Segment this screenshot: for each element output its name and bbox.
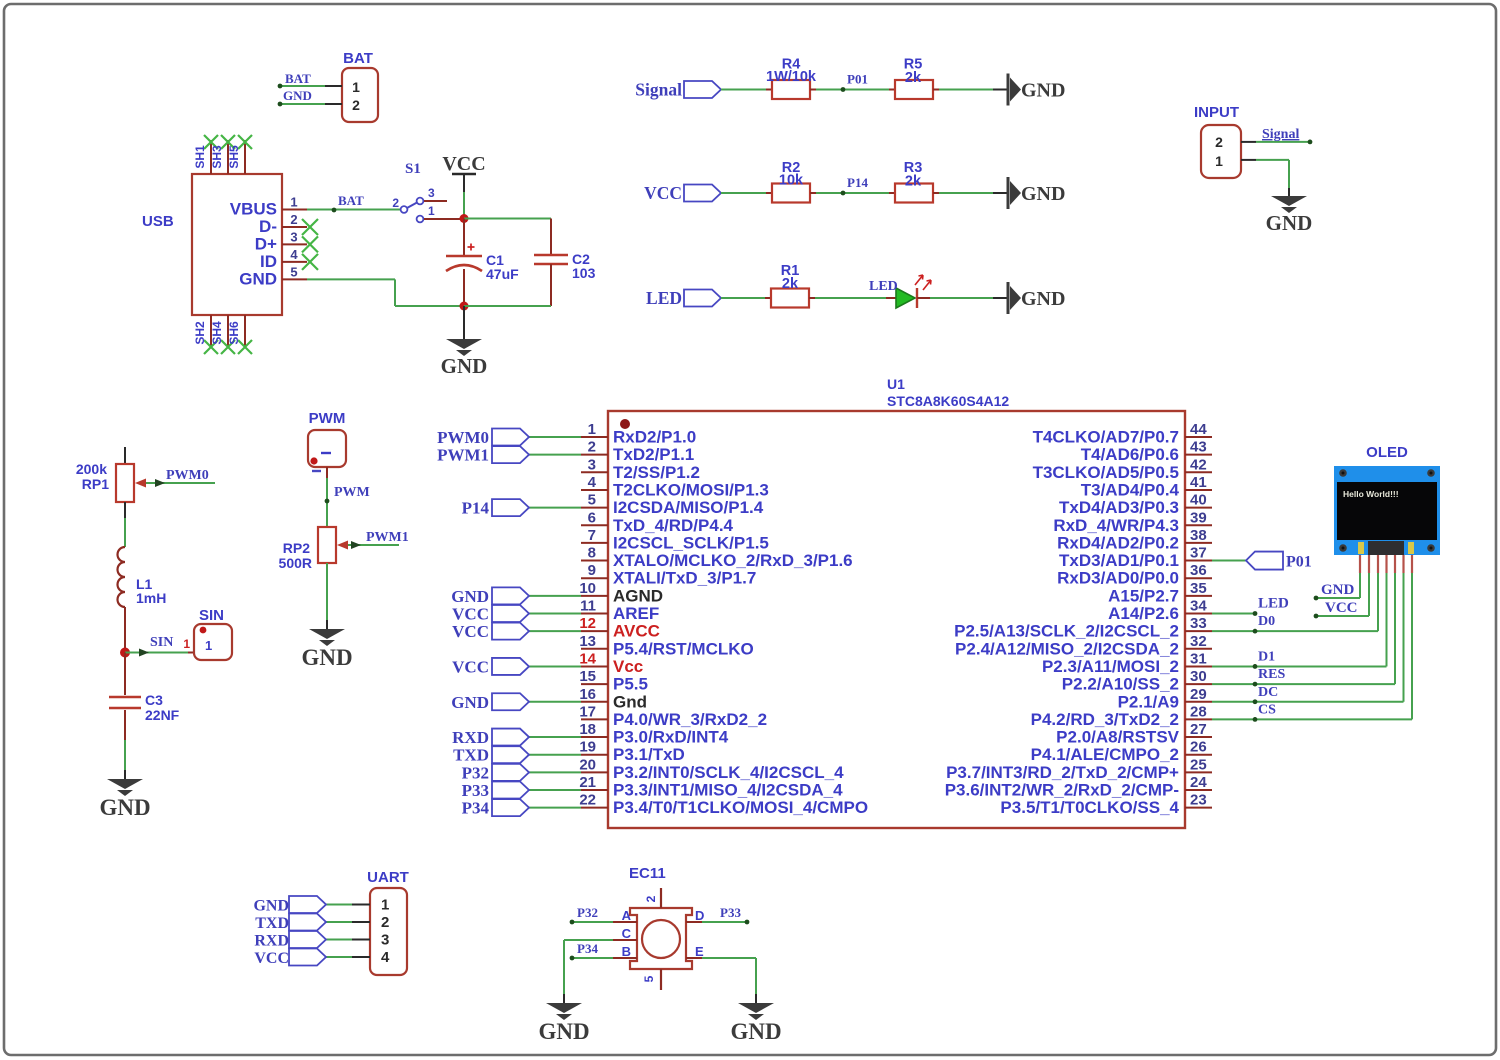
svg-text:GND: GND [1266, 211, 1313, 235]
svg-text:P34: P34 [462, 799, 490, 818]
svg-text:Signal: Signal [1262, 127, 1299, 142]
svg-text:5: 5 [290, 264, 297, 279]
svg-text:29: 29 [1190, 686, 1207, 703]
svg-text:TxD2/P1.1: TxD2/P1.1 [613, 445, 694, 464]
svg-text:XTALO/MCLKO_2/RxD_3/P1.6: XTALO/MCLKO_2/RxD_3/P1.6 [613, 551, 853, 570]
svg-text:SIN: SIN [199, 607, 224, 624]
svg-text:I2CSDA/MISO/P1.4: I2CSDA/MISO/P1.4 [613, 498, 764, 517]
svg-text:38: 38 [1190, 527, 1207, 544]
svg-text:P2.4/A12/MISO_2/I2CSDA_2: P2.4/A12/MISO_2/I2CSDA_2 [955, 639, 1179, 658]
svg-text:AREF: AREF [613, 604, 659, 623]
svg-text:RXD: RXD [254, 933, 289, 950]
svg-text:P2.3/A11/MOSI_2: P2.3/A11/MOSI_2 [1042, 657, 1179, 676]
svg-text:B: B [622, 944, 631, 959]
svg-text:39: 39 [1190, 509, 1207, 526]
svg-text:PWM1: PWM1 [366, 530, 409, 545]
svg-text:P3.2/INT0/SCLK_4/I2CSCL_4: P3.2/INT0/SCLK_4/I2CSCL_4 [613, 763, 844, 782]
svg-text:T4/AD6/P0.6: T4/AD6/P0.6 [1081, 445, 1179, 464]
svg-text:SH4: SH4 [210, 321, 224, 345]
svg-text:P2.0/A8/RSTSV: P2.0/A8/RSTSV [1056, 728, 1179, 747]
svg-text:1: 1 [183, 637, 190, 651]
svg-text:1: 1 [290, 195, 297, 210]
svg-text:P33: P33 [462, 781, 489, 800]
svg-text:SH2: SH2 [193, 321, 207, 345]
svg-text:SIN: SIN [150, 635, 173, 650]
svg-text:35: 35 [1190, 580, 1207, 597]
svg-text:47uF: 47uF [486, 266, 519, 282]
svg-text:GND: GND [1021, 183, 1065, 205]
svg-text:8: 8 [588, 545, 596, 562]
svg-text:4: 4 [381, 949, 390, 966]
svg-text:1: 1 [381, 897, 389, 914]
svg-text:5: 5 [588, 492, 596, 509]
svg-text:2: 2 [381, 914, 389, 931]
svg-text:DC: DC [1258, 685, 1278, 700]
svg-text:42: 42 [1190, 456, 1207, 473]
svg-text:GND: GND [1321, 582, 1355, 598]
svg-text:P3.0/RxD/INT4: P3.0/RxD/INT4 [613, 728, 729, 747]
svg-text:P14: P14 [847, 175, 868, 190]
svg-text:Gnd: Gnd [613, 692, 647, 711]
svg-text:23: 23 [1190, 792, 1207, 809]
svg-text:21: 21 [579, 774, 596, 791]
svg-text:ID: ID [260, 252, 277, 271]
svg-text:4: 4 [588, 474, 597, 491]
svg-text:VBUS: VBUS [230, 200, 277, 219]
svg-text:3: 3 [428, 186, 435, 200]
svg-text:2: 2 [644, 895, 658, 902]
svg-text:P4.0/WR_3/RxD2_2: P4.0/WR_3/RxD2_2 [613, 710, 767, 729]
svg-text:37: 37 [1190, 545, 1207, 562]
svg-text:43: 43 [1190, 439, 1207, 456]
svg-text:INPUT: INPUT [1194, 104, 1239, 121]
svg-text:44: 44 [1190, 421, 1207, 438]
svg-text:XTALI/TxD_3/P1.7: XTALI/TxD_3/P1.7 [613, 569, 756, 588]
svg-text:15: 15 [579, 668, 596, 685]
svg-text:PWM1: PWM1 [437, 446, 489, 465]
svg-text:5: 5 [642, 975, 656, 982]
svg-text:13: 13 [579, 633, 596, 650]
svg-text:12: 12 [579, 615, 596, 632]
svg-text:22NF: 22NF [145, 707, 180, 723]
svg-text:103: 103 [572, 265, 596, 281]
svg-text:GND: GND [253, 898, 289, 915]
svg-text:A15/P2.7: A15/P2.7 [1108, 586, 1179, 605]
svg-text:1: 1 [352, 79, 360, 95]
svg-text:PWM0: PWM0 [166, 468, 209, 483]
svg-text:RES: RES [1258, 667, 1285, 682]
svg-text:1: 1 [1215, 153, 1223, 169]
svg-text:36: 36 [1190, 562, 1207, 579]
svg-text:A: A [622, 908, 632, 923]
svg-text:T3/AD4/P0.4: T3/AD4/P0.4 [1081, 480, 1180, 499]
svg-text:31: 31 [1190, 650, 1207, 667]
svg-text:40: 40 [1190, 492, 1207, 509]
svg-text:1: 1 [205, 638, 212, 653]
svg-text:16: 16 [579, 686, 596, 703]
svg-text:1: 1 [588, 421, 596, 438]
svg-text:3: 3 [588, 456, 596, 473]
svg-text:P14: P14 [462, 499, 490, 518]
svg-text:GND: GND [441, 354, 488, 378]
svg-text:11: 11 [580, 598, 596, 615]
svg-text:2k: 2k [782, 276, 799, 292]
svg-text:P33: P33 [720, 905, 741, 920]
svg-text:USB: USB [142, 213, 174, 230]
svg-text:P3.5/T1/T0CLKO/SS_4: P3.5/T1/T0CLKO/SS_4 [1000, 798, 1179, 817]
svg-text:EC11: EC11 [629, 865, 666, 882]
svg-text:14: 14 [579, 650, 596, 667]
svg-text:C3: C3 [145, 692, 163, 708]
svg-text:VCC: VCC [452, 657, 489, 676]
svg-text:P01: P01 [847, 72, 868, 87]
svg-text:LED: LED [646, 288, 682, 308]
svg-text:BAT: BAT [343, 50, 373, 67]
svg-text:10k: 10k [779, 173, 804, 189]
svg-text:SH5: SH5 [227, 145, 241, 169]
svg-text:2k: 2k [905, 70, 922, 86]
svg-text:RxD4/AD2/P0.2: RxD4/AD2/P0.2 [1057, 533, 1179, 552]
svg-text:1: 1 [428, 204, 435, 218]
svg-text:SH6: SH6 [227, 321, 241, 345]
svg-text:T2CLKO/MOSI/P1.3: T2CLKO/MOSI/P1.3 [613, 480, 769, 499]
svg-text:BAT: BAT [285, 71, 311, 86]
svg-text:VCC: VCC [254, 950, 289, 967]
svg-text:9: 9 [588, 562, 596, 579]
svg-text:RxD3/AD0/P0.0: RxD3/AD0/P0.0 [1057, 569, 1179, 588]
svg-text:TXD: TXD [255, 915, 289, 932]
svg-text:RxD_4/WR/P4.3: RxD_4/WR/P4.3 [1053, 516, 1179, 535]
svg-text:30: 30 [1190, 668, 1207, 685]
svg-text:VCC: VCC [1325, 600, 1358, 616]
svg-text:TxD3/AD1/P0.1: TxD3/AD1/P0.1 [1059, 551, 1179, 570]
svg-text:D0: D0 [1258, 614, 1275, 629]
svg-text:3: 3 [290, 229, 297, 244]
svg-text:PWM0: PWM0 [437, 428, 489, 447]
svg-text:TxD_4/RD/P4.4: TxD_4/RD/P4.4 [613, 516, 734, 535]
svg-text:34: 34 [1190, 598, 1207, 615]
svg-text:28: 28 [1190, 703, 1207, 720]
svg-text:P01: P01 [1286, 554, 1312, 571]
svg-text:1W/10k: 1W/10k [766, 69, 817, 85]
svg-text:2k: 2k [905, 174, 922, 190]
svg-text:2: 2 [1215, 134, 1223, 150]
svg-text:TXD: TXD [453, 746, 489, 765]
svg-text:GND: GND [301, 645, 352, 670]
svg-text:U1: U1 [887, 376, 905, 392]
svg-text:P2.5/A13/SCLK_2/I2CSCL_2: P2.5/A13/SCLK_2/I2CSCL_2 [954, 622, 1179, 641]
svg-text:T4CLKO/AD7/P0.7: T4CLKO/AD7/P0.7 [1033, 428, 1179, 447]
svg-text:6: 6 [588, 509, 596, 526]
svg-text:GND: GND [538, 1019, 589, 1044]
svg-text:GND: GND [1021, 288, 1065, 310]
svg-text:Hello World!!!: Hello World!!! [1343, 489, 1399, 499]
svg-text:Signal: Signal [635, 80, 682, 100]
svg-text:2: 2 [392, 196, 399, 210]
svg-text:C: C [622, 926, 632, 941]
svg-text:P3.7/INT3/RD_2/TxD_2/CMP+: P3.7/INT3/RD_2/TxD_2/CMP+ [946, 763, 1179, 782]
svg-text:2: 2 [588, 439, 596, 456]
svg-text:2: 2 [352, 97, 360, 113]
svg-text:A14/P2.6: A14/P2.6 [1108, 604, 1179, 623]
svg-text:VCC: VCC [452, 605, 489, 624]
svg-text:P3.1/TxD: P3.1/TxD [613, 745, 685, 764]
svg-text:P5.5: P5.5 [613, 675, 648, 694]
svg-text:10: 10 [579, 580, 596, 597]
svg-text:VCC: VCC [452, 622, 489, 641]
svg-text:GND: GND [730, 1019, 781, 1044]
svg-text:18: 18 [579, 721, 596, 738]
svg-text:VCC: VCC [442, 153, 485, 175]
svg-text:CS: CS [1258, 702, 1276, 717]
svg-text:41: 41 [1190, 474, 1207, 491]
svg-text:S1: S1 [405, 161, 421, 177]
svg-text:33: 33 [1190, 615, 1207, 632]
svg-text:AVCC: AVCC [613, 622, 660, 641]
svg-text:T2/SS/P1.2: T2/SS/P1.2 [613, 463, 700, 482]
svg-text:P2.2/A10/SS_2: P2.2/A10/SS_2 [1062, 675, 1179, 694]
svg-text:LED: LED [1258, 596, 1289, 612]
svg-text:LED: LED [869, 279, 898, 294]
svg-text:TxD4/AD3/P0.3: TxD4/AD3/P0.3 [1059, 498, 1179, 517]
svg-text:32: 32 [1190, 633, 1207, 650]
svg-text:17: 17 [579, 703, 596, 720]
svg-text:P3.3/INT1/MISO_4/I2CSDA_4: P3.3/INT1/MISO_4/I2CSDA_4 [613, 781, 843, 800]
svg-text:500R: 500R [279, 555, 312, 571]
svg-text:VCC: VCC [644, 183, 682, 203]
svg-text:E: E [695, 944, 704, 959]
svg-text:GND: GND [239, 269, 277, 288]
svg-text:4: 4 [290, 247, 298, 262]
svg-text:22: 22 [579, 792, 596, 809]
svg-text:P4.1/ALE/CMPO_2: P4.1/ALE/CMPO_2 [1031, 745, 1179, 764]
svg-text:RxD2/P1.0: RxD2/P1.0 [613, 428, 696, 447]
svg-text:20: 20 [579, 756, 596, 773]
svg-text:D+: D+ [255, 234, 277, 253]
svg-text:24: 24 [1190, 774, 1207, 791]
svg-text:PWM: PWM [309, 410, 346, 427]
svg-text:GND: GND [283, 88, 312, 103]
svg-text:P2.1/A9: P2.1/A9 [1118, 692, 1179, 711]
svg-text:3: 3 [381, 932, 389, 949]
svg-text:GND: GND [451, 587, 489, 606]
svg-text:D1: D1 [1258, 649, 1275, 664]
svg-text:P5.4/RST/MCLKO: P5.4/RST/MCLKO [613, 639, 754, 658]
svg-text:OLED: OLED [1366, 444, 1408, 461]
svg-text:SH1: SH1 [193, 145, 207, 169]
svg-text:7: 7 [588, 527, 596, 544]
svg-text:RP2: RP2 [283, 540, 310, 556]
svg-text:26: 26 [1190, 739, 1207, 756]
svg-text:SH3: SH3 [210, 145, 224, 169]
svg-text:P3.4/T0/T1CLKO/MOSI_4/CMPO: P3.4/T0/T1CLKO/MOSI_4/CMPO [613, 798, 868, 817]
svg-text:P32: P32 [462, 763, 489, 782]
svg-text:GND: GND [99, 795, 150, 820]
svg-text:P3.6/INT2/WR_2/RxD_2/CMP-: P3.6/INT2/WR_2/RxD_2/CMP- [945, 781, 1179, 800]
svg-text:P34: P34 [577, 941, 598, 956]
svg-text:STC8A8K60S4A12: STC8A8K60S4A12 [887, 393, 1009, 409]
svg-text:RP1: RP1 [82, 476, 109, 492]
svg-text:2: 2 [290, 212, 297, 227]
svg-text:RXD: RXD [452, 728, 489, 747]
svg-text:25: 25 [1190, 756, 1207, 773]
svg-text:GND: GND [1021, 80, 1065, 102]
svg-text:D-: D- [259, 217, 277, 236]
svg-text:200k: 200k [76, 461, 107, 477]
svg-text:P32: P32 [577, 905, 598, 920]
svg-text:19: 19 [579, 739, 596, 756]
svg-text:Vcc: Vcc [613, 657, 643, 676]
svg-text:27: 27 [1190, 721, 1207, 738]
svg-text:1mH: 1mH [136, 590, 166, 606]
svg-text:P4.2/RD_3/TxD2_2: P4.2/RD_3/TxD2_2 [1031, 710, 1179, 729]
svg-text:PWM: PWM [334, 485, 370, 500]
svg-text:T3CLKO/AD5/P0.5: T3CLKO/AD5/P0.5 [1033, 463, 1179, 482]
svg-text:I2CSCL_SCLK/P1.5: I2CSCL_SCLK/P1.5 [613, 533, 769, 552]
svg-text:AGND: AGND [613, 586, 663, 605]
svg-text:D: D [695, 908, 704, 923]
svg-text:GND: GND [451, 693, 489, 712]
svg-text:BAT: BAT [338, 193, 364, 208]
svg-text:UART: UART [367, 869, 409, 886]
